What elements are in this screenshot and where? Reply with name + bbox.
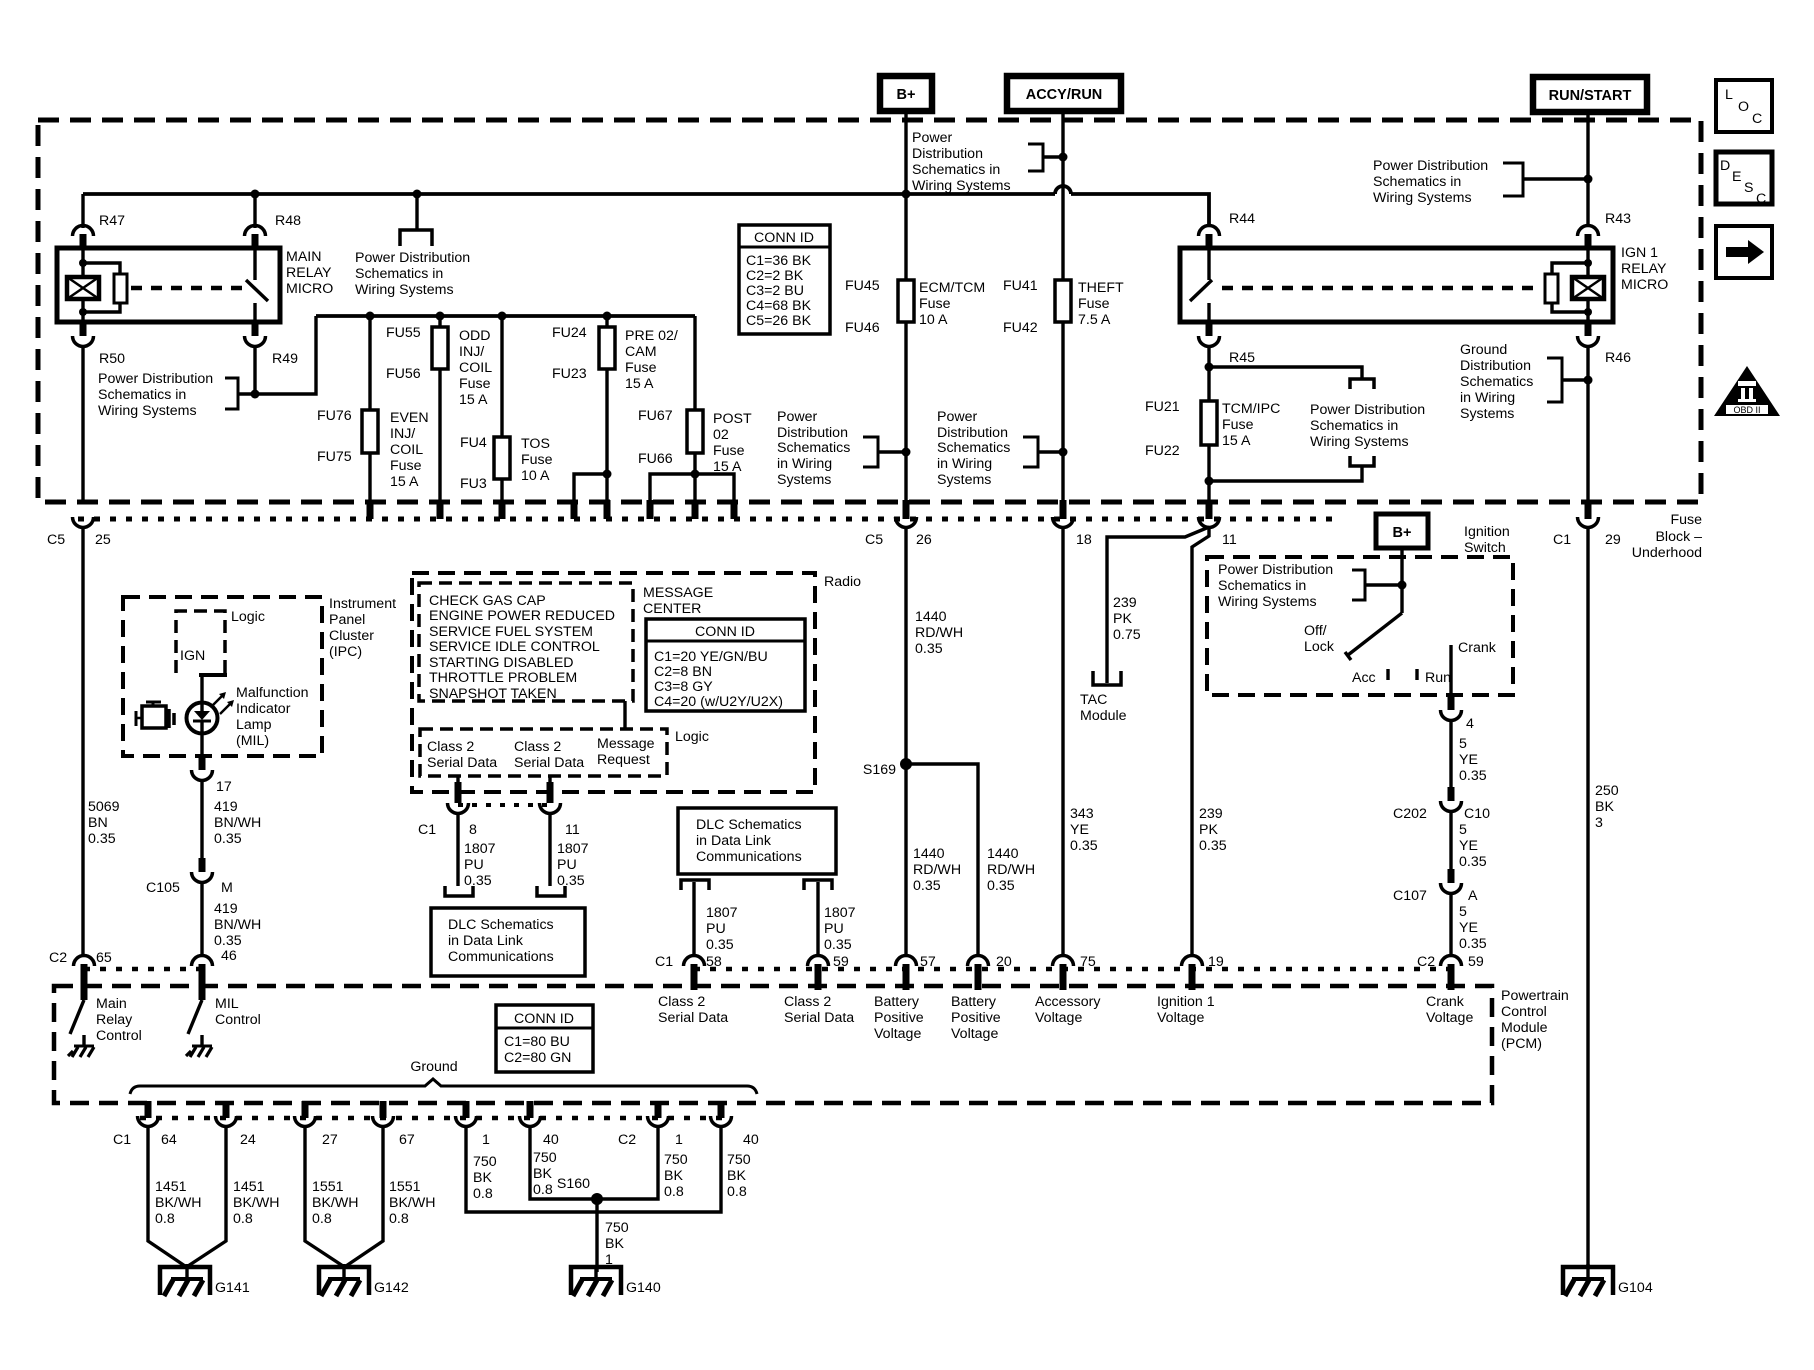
svg-text:Positive: Positive [874,1010,924,1026]
svg-text:0.35: 0.35 [706,937,734,953]
fuse FU41/FU42 THEFT [1003,278,1071,336]
svg-text:0.35: 0.35 [1459,854,1487,870]
wire RUNSTART fused output stub [1585,500,1592,519]
wire 1451 BK/WH pin 64 [148,1126,202,1266]
connector pin 20 [968,954,1012,990]
svg-text:C2=80 GN: C2=80 GN [504,1050,571,1066]
svg-text:YE: YE [1459,920,1478,936]
connector id table PCM [496,1005,593,1072]
DLC box right [678,808,836,890]
svg-text:0.35: 0.35 [915,641,943,657]
svg-text:BK: BK [1595,799,1614,815]
svg-text:C5=26 BK: C5=26 BK [746,313,812,329]
svg-text:Systems: Systems [1460,406,1514,422]
engine icon [136,702,174,728]
svg-text:Accessory: Accessory [1035,994,1101,1010]
svg-text:Serial Data: Serial Data [658,1010,728,1026]
svg-text:THEFT: THEFT [1078,280,1124,296]
svg-text:419: 419 [214,901,238,917]
svg-text:C107: C107 [1393,888,1427,904]
resistor in main relay [79,259,127,316]
svg-text:BK/WH: BK/WH [389,1195,436,1211]
svg-text:C10: C10 [1464,806,1490,822]
svg-text:BK: BK [533,1166,552,1182]
svg-text:CAM: CAM [625,344,657,360]
svg-text:Malfunction: Malfunction [236,685,309,701]
svg-text:TCM/IPC: TCM/IPC [1222,401,1280,417]
RUN/START power feed box [1533,77,1647,112]
svg-text:MICRO: MICRO [1621,277,1668,293]
svg-text:Schematics: Schematics [1460,374,1533,390]
callout power distribution B+ bay [777,409,906,488]
B+ feed box ignition [1376,514,1428,613]
svg-text:Wiring Systems: Wiring Systems [1310,434,1409,450]
callout power distribution at ACCY top [912,130,1068,194]
dotted connector face radio [458,803,550,807]
label THEFT Fuse 7.5 A [1078,280,1124,328]
node bus/B+ junction [902,190,911,199]
fuse FU45/FU46 ECM/TCM [845,278,914,336]
svg-text:S160: S160 [557,1176,590,1192]
svg-text:BN: BN [88,815,108,831]
svg-text:C: C [1756,191,1766,207]
label IGN 1 RELAY MICRO [1621,245,1668,293]
svg-text:1807: 1807 [824,905,856,921]
svg-text:Message: Message [597,736,655,752]
wire ACCY fuse output [1059,322,1068,519]
svg-text:750: 750 [727,1152,751,1168]
svg-text:Wiring Systems: Wiring Systems [355,282,454,298]
svg-text:0.8: 0.8 [312,1211,332,1227]
svg-text:Serial Data: Serial Data [427,755,497,771]
pin R45 connector [1199,320,1256,401]
wire FU66 split branches [647,470,738,520]
svg-text:Ground: Ground [1460,342,1507,358]
svg-text:COIL: COIL [459,360,492,376]
node bus FU4 [498,312,507,321]
svg-text:O: O [1738,99,1749,115]
callout power distribution at R50 [98,371,238,419]
svg-text:Powertrain: Powertrain [1501,988,1569,1004]
svg-text:CHECK GAS CAP: CHECK GAS CAP [429,593,546,609]
label Ignition Switch [1464,524,1510,556]
wire 1440 RD/WH label left [913,846,961,894]
svg-text:C2: C2 [1417,954,1435,970]
wire 239 PK to pin 19 [1192,527,1227,956]
svg-text:PU: PU [557,857,577,873]
svg-text:Voltage: Voltage [1426,1010,1473,1026]
svg-text:FU42: FU42 [1003,320,1038,336]
svg-text:PK: PK [1199,822,1218,838]
svg-text:INJ/: INJ/ [390,426,415,442]
svg-text:BK: BK [473,1170,492,1186]
wire B+ feed down [904,111,907,280]
svg-text:M: M [221,880,233,896]
wire 1440 RD/WH from pin 26 [906,527,963,956]
svg-text:SNAPSHOT TAKEN: SNAPSHOT TAKEN [429,686,557,702]
svg-text:0.75: 0.75 [1113,627,1141,643]
contact Run [1417,669,1451,686]
svg-text:Class 2: Class 2 [784,994,831,1010]
connector C2 pin 1 [618,1101,683,1148]
svg-text:1551: 1551 [389,1179,421,1195]
svg-text:Distribution: Distribution [777,425,848,441]
svg-text:C5: C5 [47,532,65,548]
svg-text:Fuse: Fuse [625,360,657,376]
ground symbol main relay control [68,1046,94,1057]
svg-text:C4=20 (w/U2Y/U2X): C4=20 (w/U2Y/U2X) [654,694,783,710]
svg-text:C1: C1 [655,954,673,970]
svg-text:0.8: 0.8 [533,1182,553,1198]
contact Acc [1352,669,1388,686]
svg-text:YE: YE [1070,822,1089,838]
svg-text:BN/WH: BN/WH [214,815,261,831]
svg-text:8: 8 [469,822,477,838]
wire IGN output in IPC [199,675,227,704]
svg-text:1440: 1440 [915,609,947,625]
dotted connector face PCM right [694,967,1462,972]
B+ power feed box [880,76,932,111]
svg-text:SERVICE FUEL SYSTEM: SERVICE FUEL SYSTEM [429,624,593,640]
wire 5069 BN from pin 25 to PCM [83,527,120,956]
svg-text:Power Distribution: Power Distribution [1310,402,1425,418]
svg-text:Fuse: Fuse [713,443,745,459]
callout power distribution at RUN/START [1373,158,1593,206]
svg-text:Class 2: Class 2 [427,739,474,755]
pin R48 connector [245,194,302,250]
TAC module [1080,671,1127,724]
contact Crank [1451,640,1497,695]
svg-text:C2=2 BK: C2=2 BK [746,268,804,284]
label fuse block underhood [1632,512,1702,561]
svg-text:R43: R43 [1605,211,1631,227]
svg-text:57: 57 [920,954,936,970]
svg-text:R46: R46 [1605,350,1631,366]
svg-text:239: 239 [1113,595,1137,611]
svg-text:BK/WH: BK/WH [155,1195,202,1211]
svg-text:1807: 1807 [557,841,589,857]
svg-text:RD/WH: RD/WH [915,625,963,641]
relay actuator dashed link main [131,286,246,291]
wire 1451 BK/WH pin 24 [188,1126,280,1266]
connector C2 pin 40 [711,1101,759,1148]
wire R49 to fuse bus [238,316,316,394]
svg-text:5: 5 [1459,736,1467,752]
svg-text:Schematics: Schematics [777,440,850,456]
svg-text:4: 4 [1466,716,1474,732]
svg-text:FU3: FU3 [460,476,487,492]
svg-text:11: 11 [565,822,580,838]
svg-text:C2=8 BN: C2=8 BN [654,664,712,680]
callout power distribution ACCY bay [937,409,1063,488]
svg-text:Voltage: Voltage [951,1026,998,1042]
fuse FU24/FU23 PRE O2/CAM [552,316,615,519]
connector C105 inline [146,858,233,956]
connector pin 67 [373,1101,415,1148]
svg-text:0.35: 0.35 [557,873,585,889]
switch main relay control [70,1000,84,1046]
svg-text:C2: C2 [49,950,67,966]
svg-text:26: 26 [916,532,932,548]
svg-text:Fuse: Fuse [459,376,491,392]
dotted connector face PCM left [84,967,202,972]
PCM dashed box [54,986,1492,1103]
svg-text:0.35: 0.35 [1459,936,1487,952]
relay actuator dashed link ign1 [1222,286,1541,291]
svg-text:67: 67 [399,1132,415,1148]
svg-text:Control: Control [96,1028,142,1044]
svg-text:R47: R47 [99,213,125,229]
svg-text:59: 59 [1468,954,1484,970]
svg-text:1807: 1807 [706,905,738,921]
svg-text:1: 1 [482,1132,490,1148]
switch MIL control [188,1000,202,1046]
label Battery Positive Voltage 57 [874,994,924,1042]
label Battery Positive Voltage 20 [951,994,1001,1042]
connector C1 pin 29 [1553,517,1621,548]
svg-text:TOS: TOS [521,436,550,452]
svg-text:S: S [1744,180,1753,196]
svg-text:G140: G140 [626,1280,661,1296]
svg-text:Wiring Systems: Wiring Systems [98,403,197,419]
svg-text:CONN ID: CONN ID [754,230,814,246]
wire 250 BK from pin 29 to G104 [1588,527,1619,1267]
wire 239 PK to TAC module [1107,527,1209,683]
svg-text:Lock: Lock [1304,639,1335,655]
connector pin 27 [295,1101,338,1148]
splice S160 [557,1176,603,1205]
svg-text:64: 64 [161,1132,177,1148]
svg-text:in Wiring: in Wiring [937,456,992,472]
svg-text:Cluster: Cluster [329,628,374,644]
svg-text:Indicator: Indicator [236,701,291,717]
svg-text:02: 02 [713,427,729,443]
svg-text:Wiring Systems: Wiring Systems [912,178,1011,194]
svg-text:MICRO: MICRO [286,281,333,297]
svg-text:FU4: FU4 [460,435,487,451]
svg-text:Systems: Systems [937,472,991,488]
connector C5 pin 26 [865,517,932,548]
wire 750 BK C2 pin 40 [597,1126,751,1212]
svg-text:(MIL): (MIL) [236,733,269,749]
svg-text:Fuse: Fuse [1078,296,1110,312]
wire 1551 BK/WH pin 27 [305,1126,359,1266]
wire ACCY/RUN feed down [1061,111,1064,280]
svg-text:Logic: Logic [231,609,265,625]
svg-text:COIL: COIL [390,442,423,458]
label TCM/IPC Fuse 15 A [1222,401,1280,449]
svg-text:G142: G142 [374,1280,409,1296]
label Instrument Panel Cluster [329,596,396,660]
node bus FU24 [603,312,612,321]
svg-text:C5: C5 [865,532,883,548]
label Class 2 Serial Data left [658,994,728,1026]
svg-text:FU24: FU24 [552,325,587,341]
node R49 junction [251,390,260,399]
label ODD INJ/COIL Fuse 15 A [459,328,492,408]
svg-text:1551: 1551 [312,1179,344,1195]
svg-text:SERVICE IDLE CONTROL: SERVICE IDLE CONTROL [429,639,600,655]
pin R50 connector [73,320,126,502]
svg-text:PU: PU [706,921,726,937]
svg-text:0.35: 0.35 [1070,838,1098,854]
svg-text:Request: Request [597,752,650,768]
svg-text:5: 5 [1459,822,1467,838]
svg-text:Fuse: Fuse [919,296,951,312]
relay switch contact ign1 [1190,250,1212,322]
pin R46 connector [1578,320,1632,502]
svg-text:250: 250 [1595,783,1619,799]
ground G142 [319,1264,409,1296]
label MIL Control [215,996,261,1028]
svg-text:RELAY: RELAY [286,265,332,281]
svg-text:Module: Module [1501,1020,1548,1036]
connector C5 pin 25 [47,517,111,548]
svg-text:ODD: ODD [459,328,491,344]
OBD II emissions triangle [1714,366,1780,416]
wire 750 BK pin 1 left [466,1126,597,1212]
svg-text:1440: 1440 [913,846,945,862]
svg-text:Power Distribution: Power Distribution [355,250,470,266]
svg-text:40: 40 [743,1132,759,1148]
svg-text:MESSAGE: MESSAGE [643,585,713,601]
svg-text:Communications: Communications [448,949,554,965]
svg-text:750: 750 [605,1220,629,1236]
svg-text:Distribution: Distribution [937,425,1008,441]
connector pin 4 crank [1441,693,1475,787]
label EVEN INJ/COIL Fuse 15 A [390,410,429,490]
svg-text:C2: C2 [618,1132,636,1148]
svg-text:40: 40 [543,1132,559,1148]
svg-text:0.8: 0.8 [233,1211,253,1227]
svg-text:Power: Power [777,409,817,425]
svg-text:1440: 1440 [987,846,1019,862]
wire 1551 BK/WH pin 67 [346,1126,436,1266]
wire B+ fuse output [902,322,911,519]
svg-text:Ignition 1: Ignition 1 [1157,994,1215,1010]
IPC dashed box [123,597,322,756]
svg-text:PRE 02/: PRE 02/ [625,328,678,344]
connector C1 pin 64 [113,1101,177,1148]
svg-text:in Data Link: in Data Link [696,833,772,849]
connector pin 11 [1199,517,1237,548]
svg-text:RUN/START: RUN/START [1549,88,1632,104]
wire 1807 PU to pin 59 [818,882,856,956]
node R45 branch junction [1205,363,1214,372]
svg-text:E: E [1732,169,1741,185]
svg-text:ECM/TCM: ECM/TCM [919,280,985,296]
svg-text:750: 750 [473,1154,497,1170]
svg-text:0.35: 0.35 [464,873,492,889]
svg-text:0.35: 0.35 [1459,768,1487,784]
wire bus to R44 [1071,194,1209,226]
ground G141 [160,1264,250,1296]
connector pin 1 left [456,1101,491,1148]
label TOS Fuse 10 A [521,436,553,484]
svg-text:FU21: FU21 [1145,399,1180,415]
label Class 2 Serial Data right [784,994,854,1026]
wire 419 BN/WH lower [214,901,261,949]
svg-text:Schematics in: Schematics in [1218,578,1306,594]
svg-text:C1=20 YE/GN/BU: C1=20 YE/GN/BU [654,649,768,665]
pin R47 connector [73,194,126,250]
pin 17 connector IPC [192,754,232,858]
connector id table fuse block [739,225,830,334]
svg-text:Power Distribution: Power Distribution [1373,158,1488,174]
node bus/R48 junction [251,190,260,199]
svg-text:DLC Schematics: DLC Schematics [696,817,802,833]
node bus FU55 [436,312,445,321]
label Off/Lock [1304,623,1335,655]
svg-text:Schematics in: Schematics in [912,162,1000,178]
relay coil K-main [67,250,99,322]
svg-text:Positive: Positive [951,1010,1001,1026]
svg-text:15 A: 15 A [1222,433,1251,449]
label MESSAGE CENTER [643,585,713,617]
svg-text:BK: BK [605,1236,624,1252]
svg-text:Wiring Systems: Wiring Systems [1218,594,1317,610]
svg-text:75: 75 [1080,954,1096,970]
wire hop over ACCY wire [1055,186,1071,194]
svg-text:Radio: Radio [824,574,861,590]
svg-text:0.35: 0.35 [88,831,116,847]
svg-text:EVEN: EVEN [390,410,429,426]
svg-text:750: 750 [664,1152,688,1168]
svg-text:Power Distribution: Power Distribution [98,371,213,387]
label Powertrain Control Module [1501,988,1569,1052]
lamp emission arrows [212,692,234,714]
dotted connector face PCM bottom [140,1116,732,1121]
fuse FU55/FU56 ODD INJ/COIL [386,316,448,519]
svg-text:1451: 1451 [155,1179,187,1195]
svg-text:0.35: 0.35 [1199,838,1227,854]
svg-text:750: 750 [533,1150,557,1166]
fuse block connector face dotted line [78,517,1340,522]
wire RUN/START feed down [1586,112,1589,226]
svg-text:PU: PU [824,921,844,937]
svg-text:Run: Run [1425,670,1451,686]
svg-text:Crank: Crank [1458,640,1497,656]
svg-text:in Wiring: in Wiring [1460,390,1515,406]
svg-text:BK: BK [664,1168,683,1184]
svg-text:Fuse: Fuse [1670,512,1702,528]
svg-text:RELAY: RELAY [1621,261,1667,277]
svg-text:S169: S169 [863,762,896,778]
svg-text:BK/WH: BK/WH [233,1195,280,1211]
svg-text:FU22: FU22 [1145,443,1180,459]
wire 1440 RD/WH label right [987,846,1035,894]
svg-text:TAC: TAC [1080,692,1107,708]
svg-text:419: 419 [214,799,238,815]
svg-text:FU75: FU75 [317,449,352,465]
wire 1807 PU pin11 [557,841,589,889]
svg-text:IGN 1: IGN 1 [1621,245,1658,261]
label Ground with brace [130,1059,757,1094]
wire fuse feed bus [316,314,695,318]
svg-text:Class 2: Class 2 [658,994,705,1010]
connector pin 59 class2 [808,954,849,990]
svg-text:15 A: 15 A [459,392,488,408]
relay IGN 1 RELAY MICRO body [1180,248,1613,322]
DESC legend icon [1716,152,1772,207]
connector C2 pin 59 crank [1417,954,1484,990]
wire FU23 split branch [571,470,612,520]
svg-text:PU: PU [464,857,484,873]
svg-text:ENGINE POWER REDUCED: ENGINE POWER REDUCED [429,608,615,624]
svg-text:FU56: FU56 [386,366,421,382]
svg-text:RD/WH: RD/WH [913,862,961,878]
svg-text:Crank: Crank [1426,994,1465,1010]
